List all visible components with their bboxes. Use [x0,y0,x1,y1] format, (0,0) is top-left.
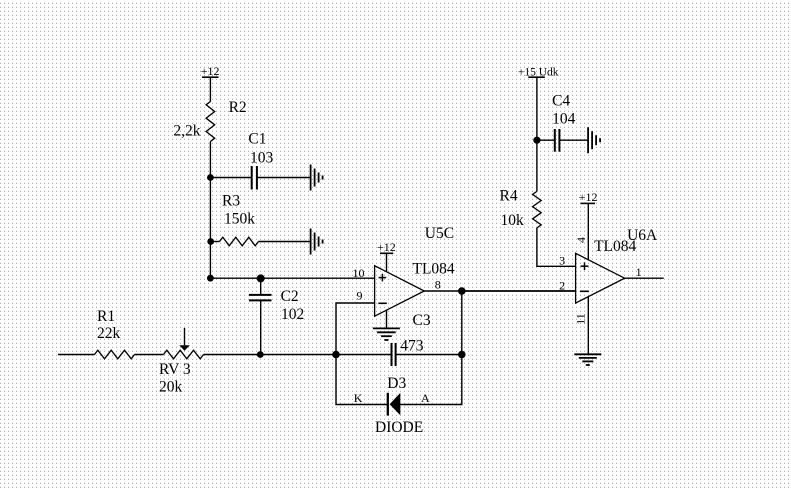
power +12 (U6A) [579,190,598,204]
node (junction main rail / pin9 / D3) [332,351,340,359]
node (junction C2 top) [257,274,265,282]
wire (U6A V- to ground) [587,297,589,355]
wire (U5C V- to ground) [386,310,388,328]
ground (R3, rotated bars) [311,229,323,255]
capacitor C4 [555,129,560,152]
wire (C1 to ground) [257,177,311,179]
wire (D3 loop right side) [400,355,462,405]
power +15 Udk [518,67,559,79]
wire (pin 2 from junction) [462,290,576,292]
svg-text:U5C: U5C [425,225,454,242]
svg-text:R1: R1 [97,308,115,325]
node (junction C4 tap) [533,137,540,144]
svg-text:C4: C4 [552,93,570,110]
capacitor C1 [252,166,257,190]
svg-text:2,2k: 2,2k [173,123,200,140]
svg-text:473: 473 [400,338,424,355]
U6A minus input mark [580,290,589,292]
svg-text:+12: +12 [201,64,220,78]
wire (pin 9 loop) [336,303,375,355]
wire (D3 loop left side) [336,355,388,405]
ground (U5C) [373,328,400,340]
svg-text:C3: C3 [413,312,431,329]
svg-text:11: 11 [573,313,587,325]
op-amp U6A [576,253,625,303]
wire (+15 down to R4) [536,77,538,191]
power +12 (top of R2) [201,64,220,78]
node (corner to pin 10) [207,275,214,282]
wire (U6A V+ into triangle) [587,203,589,260]
resistor R4 [533,191,542,228]
svg-text:R3: R3 [222,193,240,210]
svg-text:8: 8 [435,278,441,292]
node (junction pin 8 / feedback) [458,287,466,295]
svg-text:RV 3: RV 3 [159,361,191,378]
wire (RV3 to C3 junction) [204,354,337,356]
capacitor C2 [249,295,272,301]
resistor R1 [95,350,135,359]
ground (U6A) [574,354,601,365]
svg-text:R2: R2 [229,99,247,116]
potentiometer RV3 [164,350,204,359]
svg-text:A: A [421,391,430,405]
ground (C1, rotated bars) [311,165,323,191]
diode D3 [388,393,401,416]
wire (U5C V+ into triangle) [386,253,388,272]
node (junction R2/R3) [207,238,214,245]
wire (junction to R3) [211,241,220,243]
svg-text:+12: +12 [377,240,396,254]
wire (C2 down to main rail) [260,300,262,354]
svg-text:150k: 150k [224,211,255,228]
svg-text:20k: 20k [159,379,183,396]
svg-text:DIODE: DIODE [375,419,423,436]
capacitor C3 [392,343,396,366]
potentiometer wiper arrow [179,328,190,351]
wire (main rail left end to R1) [58,354,95,356]
svg-text:D3: D3 [387,375,406,392]
wire (+12 bar to R2 top) [209,77,211,101]
svg-text:TL084: TL084 [413,261,455,278]
node (junction R2/C1) [207,174,214,181]
U5C plus input mark [379,274,387,282]
wire (junction to C4) [537,139,555,141]
svg-text:9: 9 [357,289,363,303]
U5C minus input mark [378,302,386,304]
U6A plus input mark [581,262,589,270]
svg-text:103: 103 [250,150,274,167]
wire (junction to C1) [210,177,251,179]
wire (R1 to RV3) [135,354,164,356]
svg-text:C1: C1 [248,131,266,148]
wire (to U5C pin 10) [210,277,374,279]
node (junction right of C3) [458,351,466,359]
svg-text:104: 104 [552,111,576,128]
wire (feedback down to rail) [461,291,463,355]
svg-text:4: 4 [574,237,588,243]
svg-text:C2: C2 [281,288,299,305]
svg-text:1: 1 [636,265,642,279]
wire (U5C output pin 8) [424,290,575,292]
node (junction C2 bottom on main rail) [257,351,264,358]
op-amp U5C [375,266,425,317]
wire (U6A output pin 1) [625,277,664,279]
svg-text:102: 102 [281,306,304,323]
resistor R3 [220,237,259,246]
svg-text:10k: 10k [501,212,525,229]
wire (R2 bottom down to pin10 corner) [209,142,211,279]
svg-text:+12: +12 [579,190,598,204]
wire (R3 to ground) [259,241,311,243]
svg-text:R4: R4 [500,188,518,205]
svg-text:K: K [354,391,363,405]
svg-text:10: 10 [353,266,365,280]
wire (C4 to ground) [559,139,588,141]
ground (C4, rotated bars) [588,127,600,153]
wire (junction down to C2) [260,278,262,294]
wire (R4 down and to pin 3) [537,228,576,266]
svg-text:3: 3 [559,254,565,268]
resistor R2 [206,102,215,142]
power +12 (U5C) [377,240,396,254]
svg-text:22k: 22k [97,325,121,342]
wire (C3 right plate to junction) [396,354,462,356]
wire (junction to C3 left plate) [336,354,391,356]
svg-text:TL084: TL084 [594,238,636,255]
